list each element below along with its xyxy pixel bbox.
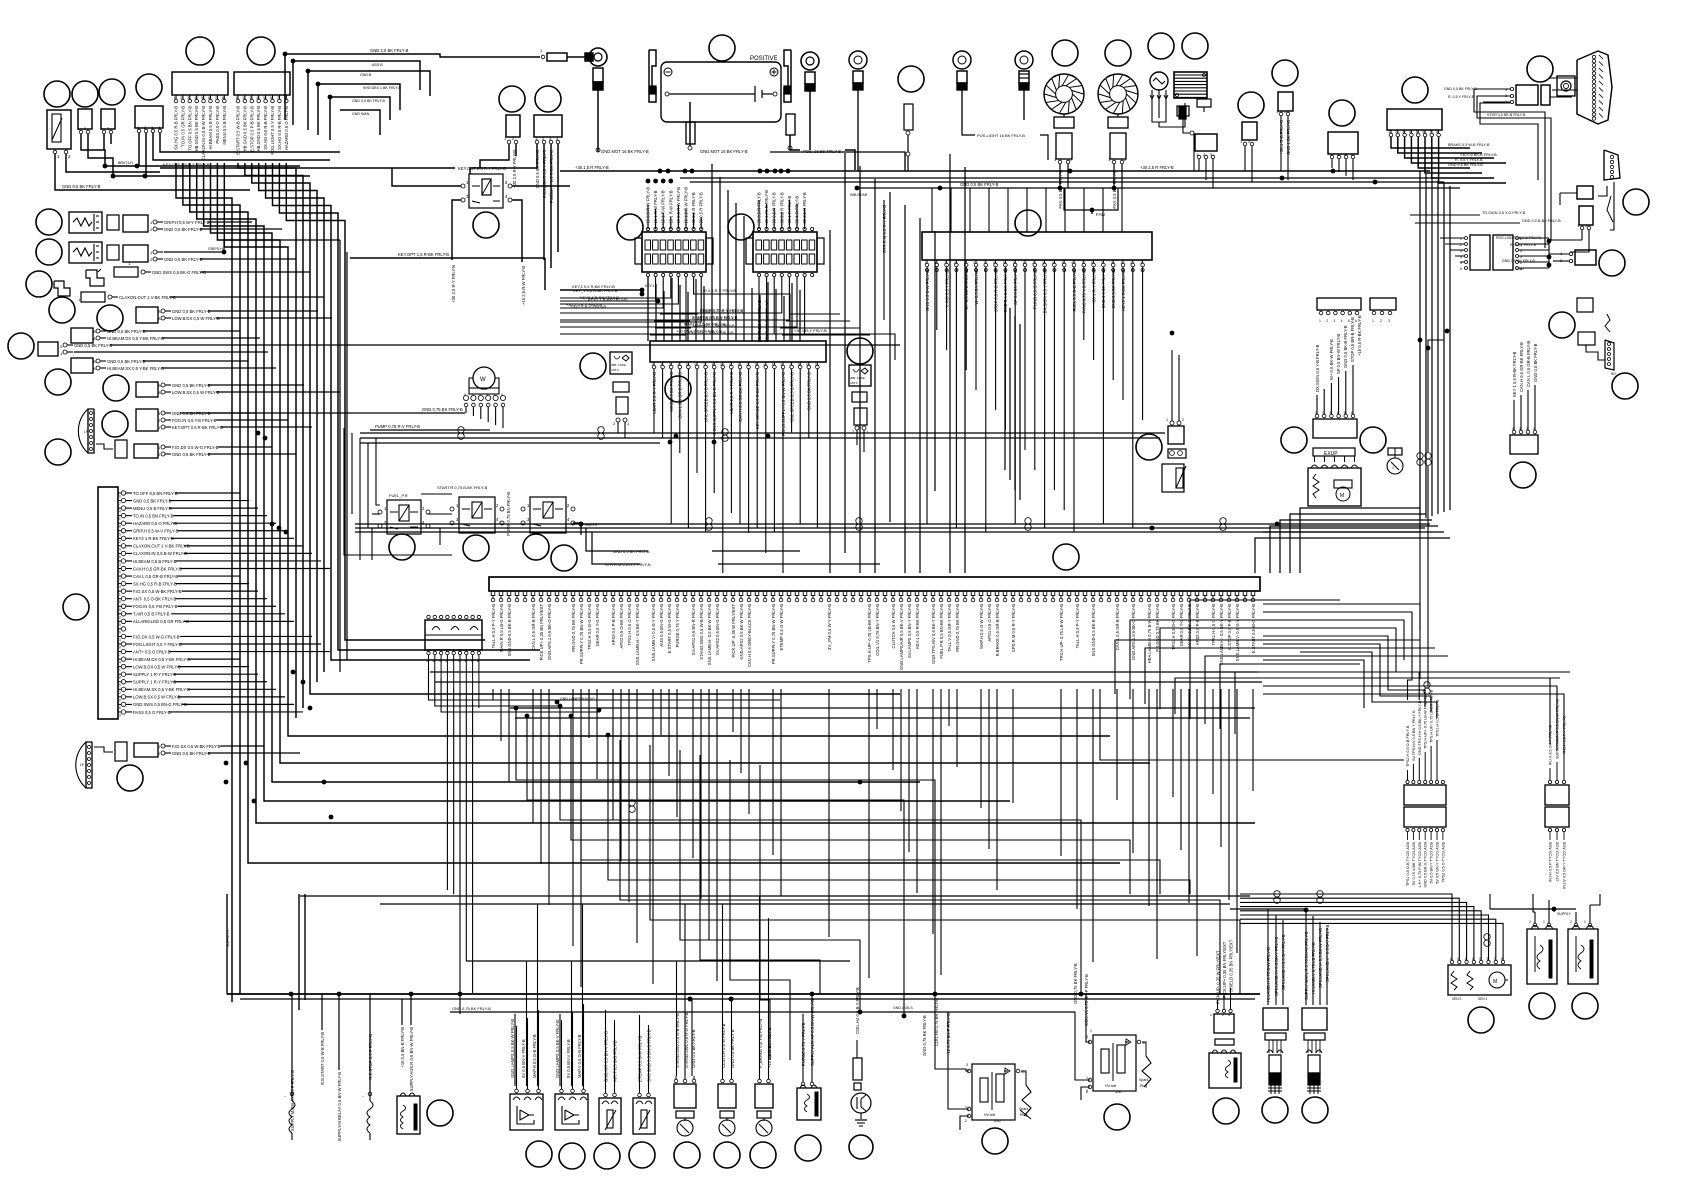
svg-text:7: 7 [1081,261,1083,265]
svg-text:E.STOP 0.5 P-B FRLY-B: E.STOP 0.5 P-B FRLY-B [249,106,254,152]
node balloon [1104,1104,1130,1130]
svg-text:B: B [158,383,161,388]
svg-text:SEN 1: SEN 1 [1478,997,1487,1001]
svg-text:3: 3 [249,96,251,100]
node balloon [523,534,549,560]
svg-text:SNS GND 0,5 BK-B FRLY-B: SNS GND 0,5 BK-B FRLY-B [507,604,512,657]
svg-text:STOP 0,5 BR-B FRLY-B: STOP 0,5 BR-B FRLY-B [1350,317,1355,362]
svg-text:GND.TPS.H/V 0,5 BK-Y FRLY-B: GND.TPS.H/V 0,5 BK-Y FRLY-B [931,604,936,664]
wire [63,343,67,347]
svg-text:GND 0,5 BK FRLY-B: GND 0,5 BK FRLY-B [613,549,650,554]
svg-text:SX.HG 0,5 R-B FRLY-B: SX.HG 0,5 R-B FRLY-B [133,581,177,586]
svg-text:PICK.UP+ 0,35 BN FRLY/EXT: PICK.UP+ 0,35 BN FRLY/EXT [539,604,544,661]
svg-text:GND 0,75 BK FRLY-B: GND 0,75 BK FRLY-B [422,407,463,412]
svg-text:5: 5 [772,363,774,367]
node balloon [1549,312,1575,338]
svg-text:TPS2.H 0,5 O-B FRLY-B: TPS2.H 0,5 O-B FRLY-B [1406,725,1410,767]
svg-text:TPS2.H 0,5 O-G FRLY-B: TPS2.H 0,5 O-G FRLY-B [1171,604,1176,650]
connector 4-pin [534,115,562,137]
node balloon [1527,56,1553,82]
svg-text:8: 8 [119,600,121,604]
wire gnd bus [855,187,1460,189]
fan 1 [1044,74,1084,114]
svg-text:GND.WAN: GND.WAN [352,112,370,116]
relay start [459,497,495,533]
wire trunk left extras [339,240,341,672]
wire bus gnd.coils [450,1011,1075,1013]
svg-text:PASS 0,5 O FRLY-B: PASS 0,5 O FRLY-B [133,710,171,715]
node balloon [898,66,924,92]
wire [1230,908,1306,910]
svg-text:HB.GND 0.5 BK FRLY-B: HB.GND 0.5 BK FRLY-B [242,106,247,152]
wire fuse A out [647,277,649,341]
svg-text:SNS GND 0,5 BK-B FRLY-B: SNS GND 0,5 BK-B FRLY-B [1091,604,1096,657]
svg-text:SUPPLY.AUX.R 0,5 BN-W FRLY-B: SUPPLY.AUX.R 0,5 BN-W FRLY-B [409,1027,414,1092]
svg-text:SV.APS2 0,5 BN-G FRLY-B: SV.APS2 0,5 BN-G FRLY-B [715,604,720,655]
connector 2-pin [1579,206,1593,225]
svg-text:HB.GND 0.5 BK FRLY-B: HB.GND 0.5 BK FRLY-B [194,106,199,152]
svg-text:GND 0,75 BK FRLY-B: GND 0,75 BK FRLY-B [1073,963,1078,1004]
svg-text:3: 3 [119,638,121,642]
svg-text:GND 0,5 BK FRLY B: GND 0,5 BK FRLY B [730,1029,735,1068]
pickup coil [1209,1053,1241,1088]
node balloon [1623,189,1649,215]
svg-text:1: 1 [925,261,927,265]
svg-text:2: 2 [746,363,748,367]
svg-text:SX.HG 0.5 R-B FRLY-B: SX.HG 0.5 R-B FRLY-B [263,106,268,150]
svg-text:KEY_1 0,5 R-BK FRLY-B: KEY_1 0,5 R-BK FRLY-B [573,288,618,293]
battery plus lead [786,114,795,135]
svg-text:FOG.LIGHT 0,5 Y FRLY-B: FOG.LIGHT 0,5 Y FRLY-B [133,642,182,647]
svg-text:2: 2 [1326,319,1328,323]
svg-text:+15 0,5 BN-B FRLY-B: +15 0,5 BN-B FRLY-B [400,1027,405,1068]
svg-text:TPS.H.UP- 0,75 LB-BK FRLY-B: TPS.H.UP- 0,75 LB-BK FRLY-B [1430,689,1434,743]
svg-text:6: 6 [781,363,783,367]
svg-text:9: 9 [119,547,121,551]
bulb connectors [115,742,127,761]
wire bus 896 [300,895,1250,897]
svg-text:5: 5 [1348,319,1350,323]
svg-text:4: 4 [954,261,956,265]
connector dashboard tall [98,487,118,719]
ignition coil H [972,1064,1015,1120]
svg-text:CAN H 0,5 GR-BK FRLY-B: CAN H 0,5 GR-BK FRLY-B [1519,342,1524,392]
svg-text:2: 2 [934,261,936,265]
svg-text:LOW.B.DX 0,5 W FRLY-B: LOW.B.DX 0,5 W FRLY-B [172,316,220,321]
svg-text:+12 0,75 BN-P FRLY-B: +12 0,75 BN-P FRLY-B [946,1013,951,1056]
throttle position sensor connector [1404,785,1446,805]
node balloon [45,369,71,395]
wire [1428,340,1444,348]
svg-text:3: 3 [1228,1013,1230,1017]
fuel level sensor [47,110,71,149]
svg-text:FAN 0,5 B-Y FRLY-B: FAN 0,5 B-Y FRLY-B [1058,170,1063,209]
svg-text:ANT.C: ANT.C [850,381,858,385]
svg-text:ANT.C: ANT.C [611,368,619,372]
svg-text:GND.APS.1 0,5 BK-O FRLY-B: GND.APS.1 0,5 BK-O FRLY-B [547,604,552,660]
svg-text:TO.IN 0.5 GR FRLY-B: TO.IN 0.5 GR FRLY-B [180,106,185,147]
svg-text:2: 2 [119,540,121,544]
svg-text:CAN L 0,5 GR-B FRLY-B: CAN L 0,5 GR-B FRLY-B [1526,341,1531,387]
svg-text:GND.MOT 16 BK FRLY-B: GND.MOT 16 BK FRLY-B [601,149,649,154]
svg-text:SNS.LAMB.H- 0,5 BK-W FRLY-B: SNS.LAMB.H- 0,5 BK-W FRLY-B [707,604,712,665]
svg-text:3V._PM 0,5 W-Y FRLY-B: 3V._PM 0,5 W-Y FRLY-B [827,604,832,650]
switch [86,270,104,286]
fan 2 [1098,74,1138,114]
svg-text:F_BRAKE 0,5 Y-B FRLY-B: F_BRAKE 0,5 Y-B FRLY-B [758,1019,763,1068]
svg-text:Plug: Plug [1140,1084,1147,1088]
svg-text:4: 4 [119,510,121,514]
svg-text:IMB.REAR: IMB.REAR [850,193,868,197]
svg-text:GND 0,5 BK FRLY-B: GND 0,5 BK FRLY-B [1444,87,1478,91]
svg-text:FUEL.P.R 0,5 BN-BK FRLY-B: FUEL.P.R 0,5 BN-BK FRLY-B [939,604,944,659]
wire right bus entry [1331,169,1336,174]
connector 2-pin [1242,122,1257,140]
relay box connector [425,620,482,650]
injector H [1263,1008,1288,1030]
svg-text:KEY.OUT 0,5 R-Y FRLY-B: KEY.OUT 0,5 R-Y FRLY-B [163,162,210,167]
fuse box rear [753,232,817,272]
svg-text:7: 7 [703,363,705,367]
svg-text:A: A [158,316,161,321]
node balloon [982,1128,1008,1154]
node balloon [1529,993,1555,1019]
svg-text:GND.APS2 0,5 BK-W FRLY-B: GND.APS2 0,5 BK-W FRLY-B [739,604,744,660]
svg-text:POS.LIGHT 16 BK FRLY-B: POS.LIGHT 16 BK FRLY-B [977,133,1025,138]
node balloon [1105,40,1131,66]
svg-text:COIL.V1 0,75 BN-P FRLY-B: COIL.V1 0,75 BN-P FRLY-B [1084,974,1089,1026]
svg-text:IMB··CODE: IMB··CODE [611,363,626,367]
wire junctions [270,522,275,527]
svg-text:TO.IN 0,5 BN FRLY-B: TO.IN 0,5 BN FRLY-B [133,513,174,518]
node balloon [1599,250,1625,276]
svg-text:2: 2 [1380,319,1382,323]
svg-text:2: 2 [1086,1089,1088,1093]
svg-text:GND 0,5 BK FRLY-B: GND 0,5 BK FRLY-B [172,383,211,388]
svg-text:6: 6 [119,630,121,634]
node balloon [49,297,75,323]
svg-text:0: 0 [815,363,817,367]
wire mesh right [1100,689,1404,760]
svg-text:PUMP 0,75 BN FRLY-B: PUMP 0,75 BN FRLY-B [506,492,511,536]
svg-text:GND 0,5 BK FRLY-B: GND 0,5 BK FRLY-B [107,359,146,364]
node balloon [629,1142,655,1168]
ring terminal [849,51,867,69]
clutch switch [718,1084,736,1108]
svg-text:5: 5 [119,532,121,536]
heated grip left [69,242,102,263]
alternator [1150,72,1168,90]
wire [470,144,537,174]
svg-text:GND: GND [994,1119,1002,1123]
svg-text:E.START 0,5 W-G FRLY-B: E.START 0,5 W-G FRLY-B [667,604,672,653]
svg-text:6: 6 [119,706,121,710]
wire [480,144,509,168]
battery [661,62,781,122]
svg-text:KEY.OUT 0.5 R Y FRLY-B: KEY.OUT 0.5 R Y FRLY-B [458,166,506,171]
ring terminal battery+ [801,52,819,70]
svg-text:GND 0,5 BK FRLY-B: GND 0,5 BK FRLY-B [1533,343,1538,382]
svg-text:0: 0 [119,646,121,650]
svg-text:7: 7 [215,96,217,100]
svg-text:+30 2,5 R-Y FRLY-B: +30 2,5 R-Y FRLY-B [451,265,456,303]
svg-text:TPS.H.UP- 0,75 LB-W FRLY-B: TPS.H.UP- 0,75 LB-W FRLY-B [1059,604,1064,661]
node balloon [1272,60,1298,86]
connector 4-pin [1328,132,1358,154]
node balloon [580,353,606,379]
svg-text:MENU 0.5 B FRLY-B: MENU 0.5 B FRLY-B [222,106,227,145]
svg-text:1: 1 [119,668,121,672]
svg-text:ALLARM.LED 0,5 GR FRLY-B: ALLARM.LED 0,5 GR FRLY-B [133,619,189,624]
svg-text:GND.SWS 0,5 BK-G FRLY-B: GND.SWS 0,5 BK-G FRLY-B [152,270,206,275]
lamp connector [136,307,158,323]
wire bus triple [355,523,1430,525]
purge valve [797,1088,821,1120]
svg-text:TPS.H.UP- 0,75 LB-BK FRLY-B: TPS.H.UP- 0,75 LB-BK FRLY-B [867,604,872,663]
connector [123,245,148,262]
wire stepper staircase [1240,894,1452,960]
wire [293,61,420,90]
svg-text:8: 8 [1091,261,1093,265]
svg-text:SHD.DBS 1 BK FRLY-B: SHD.DBS 1 BK FRLY-B [363,86,402,90]
node balloon [849,1135,873,1159]
node balloon [44,81,70,107]
wire [452,200,461,260]
relay lights 2 [1493,235,1513,270]
stepper motor [1448,965,1511,995]
svg-text:R. 0,5 Y FRLY-B: R. 0,5 Y FRLY-B [1448,95,1475,99]
svg-text:R. 0,5 Y FRLY-B: R. 0,5 Y FRLY-B [1455,158,1483,162]
svg-text:5: 5 [1416,130,1418,134]
svg-text:GND 0,5 BK-G TYCO.ACB: GND 0,5 BK-G TYCO.ACB [1424,842,1428,888]
svg-text:HB.GND 0.5 BK FRLY-B: HB.GND 0.5 BK FRLY-B [256,106,261,152]
svg-text:8: 8 [1436,130,1438,134]
svg-text:7: 7 [119,578,121,582]
svg-text:3: 3 [119,562,121,566]
svg-text:4: 4 [1052,261,1054,265]
svg-text:TO.SIGN 0,5 Y-G FRLY-B: TO.SIGN 0,5 Y-G FRLY-B [1482,211,1526,215]
svg-text:SEN 2: SEN 2 [1452,997,1461,1001]
svg-text:KEY.1: KEY.1 [645,284,655,288]
svg-text:GRIP.H 0,5 W-Y FRLY-B: GRIP.H 0,5 W-Y FRLY-B [164,220,210,225]
wire [1549,240,1582,268]
svg-text:7: 7 [1429,130,1431,134]
svg-text:B: B [93,329,96,334]
connector left handlebar switch [172,72,228,95]
svg-text:CAV.H 0,5 GR-BK FRLY-B: CAV.H 0,5 GR-BK FRLY-B [133,566,182,571]
svg-text:+30.DSH 2,5 R-Y FRLY-B: +30.DSH 2,5 R-Y FRLY-B [688,330,734,335]
svg-text:3: 3 [1086,1035,1088,1039]
connector 3-pin [1195,134,1217,151]
svg-text:PASS 0.5 O FRLY-B: PASS 0.5 O FRLY-B [215,106,220,144]
node balloon [389,534,415,560]
svg-text:GND 0,5 BK FRLY-B: GND 0,5 BK FRLY-B [164,257,203,262]
svg-text:APS2 0,5 O-BK FRLY-B: APS2 0,5 O-BK FRLY-B [619,604,624,649]
svg-text:MAIN.B 2,5 BK FRLY-B: MAIN.B 2,5 BK FRLY-B [693,323,735,328]
svg-text:SV-APS1 0,5 BN-R FRLY-B: SV-APS1 0,5 BN-R FRLY-B [691,604,696,655]
wire pump label [370,429,490,431]
svg-text:9: 9 [806,363,808,367]
node balloon [63,594,89,620]
svg-text:2: 2 [965,1119,967,1123]
node balloon [102,411,128,437]
svg-text:F.ID.SX 0,5 W-BK FRLY-B: F.ID.SX 0,5 W-BK FRLY-B [133,589,182,594]
svg-text:FUEL_P.R: FUEL_P.R [389,493,408,498]
svg-text:LOW.B.DX 0,5 W FRLY-B: LOW.B.DX 0,5 W FRLY-B [133,664,181,669]
svg-text:3: 3 [669,363,671,367]
svg-text:5: 5 [263,96,265,100]
svg-text:PUMP 0,75 R-Y FRLY-B: PUMP 0,75 R-Y FRLY-B [700,309,743,314]
heated grip right [69,212,102,233]
svg-text:GND 0,5 BK FRLY-B: GND 0,5 BK FRLY-B [74,343,113,348]
node balloon [1572,993,1598,1019]
svg-text:KEY.OPT 0,5 R-BK FRLY-B: KEY.OPT 0,5 R-BK FRLY-B [172,425,223,430]
node balloon [26,271,52,297]
node balloon [1262,1097,1288,1123]
svg-text:3: 3 [1388,319,1390,323]
svg-text:1: 1 [236,96,238,100]
connector 2-pin [78,109,92,129]
node balloon [473,212,499,238]
svg-text:SHIELD 0,35 BN FRLY/EXT: SHIELD 0,35 BN FRLY/EXT [1229,939,1234,992]
svg-text:PR.GND 0,75 BK FRLY-B: PR.GND 0,75 BK FRLY-B [955,604,960,652]
wire bus to instrument [931,188,933,232]
svg-text:KEY.1 0,5 R-BK FRLY-B: KEY.1 0,5 R-BK FRLY-B [915,604,920,649]
svg-text:COIL.H4 0,5 B-Y FRLY-B: COIL.H4 0,5 B-Y FRLY-B [855,987,860,1034]
svg-text:EXUP: EXUP [1324,451,1338,457]
svg-text:HV bolt: HV bolt [984,1113,995,1117]
svg-text:E.START 0.5 W-B FRLY-B: E.START 0.5 W-B FRLY-B [236,106,241,155]
svg-text:2: 2 [242,96,244,100]
svg-text:GND.LAMPS/AIR 0,5 BK-V FRLY-B: GND.LAMPS/AIR 0,5 BK-V FRLY-B [899,604,904,670]
connector horn [38,342,58,356]
node balloon [1213,1098,1239,1124]
svg-text:4: 4 [494,393,496,397]
svg-text:6: 6 [270,96,272,100]
svg-text:PICK.UP+ 0,35 BN FRLY/EXT: PICK.UP+ 0,35 BN FRLY/EXT [1222,941,1227,998]
svg-text:3: 3 [187,96,189,100]
svg-text:6: 6 [208,96,210,100]
fuse box front [642,232,706,272]
svg-text:3: 3 [1333,319,1335,323]
wire [429,668,781,700]
coil symbol [289,1101,295,1133]
svg-text:FOG.IN 0,5 Y-B FRLY-B: FOG.IN 0,5 Y-B FRLY-B [133,604,178,609]
svg-text:KEY2 1 R-BK FRLY-B: KEY2 1 R-BK FRLY-B [588,297,627,302]
svg-text:HI.BEAM.DX 0,5 Y-BK FRLY-B: HI.BEAM.DX 0,5 Y-BK FRLY-B [107,336,164,341]
air temp sensor [599,1098,621,1134]
node balloon [1329,100,1355,126]
wire key.opt [350,257,545,259]
connector right handlebar switch [234,72,290,95]
svg-text:5V 0,75 V-BK TYCO.ACB: 5V 0,75 V-BK TYCO.ACB [1412,842,1416,886]
wire [573,523,581,535]
svg-text:1: 1 [1584,920,1586,924]
svg-text:GND: GND [1115,1090,1123,1094]
regulator [1174,72,1207,98]
svg-text:9: 9 [720,363,722,367]
svg-text:GND 0,75 BK FRLY-B: GND 0,75 BK FRLY-B [922,1015,927,1056]
svg-text:INJ-V 0,5 GR-Y TYCO.ACB: INJ-V 0,5 GR-Y TYCO.ACB [1563,842,1567,889]
engine control unit connector [489,577,1260,591]
svg-text:FOG.LIGHT 0.5 Y FRLY-B: FOG.LIGHT 0.5 Y FRLY-B [270,106,275,155]
svg-text:9: 9 [1003,261,1005,265]
svg-text:1: 1 [1121,261,1123,265]
svg-text:LP: LP [80,763,84,767]
connector [123,215,148,232]
svg-text:TPS2 0,5 O TYCO.ACB: TPS2 0,5 O TYCO.ACB [1441,842,1445,883]
node balloon [463,535,489,561]
wire gnd.mot [597,148,599,152]
svg-text:GND 0,5 BK FRLY-B: GND 0,5 BK FRLY-B [1448,163,1483,167]
svg-text:1: 1 [1086,1076,1088,1080]
connector 4-pin [1510,435,1538,454]
svg-text:PURGE 0,75 Y FRLY-B: PURGE 0,75 Y FRLY-B [675,604,680,648]
svg-text:A: A [158,390,161,395]
svg-text:HI.BEAM.SX 0,5 Y-BK FRLY-B: HI.BEAM.SX 0,5 Y-BK FRLY-B [107,366,164,371]
svg-text:TPS1.H 0,5 O FRLY-B: TPS1.H 0,5 O FRLY-B [1436,699,1440,737]
svg-text:+30 1 R-Y FRLY-B: +30 1 R-Y FRLY-B [794,328,827,333]
node balloon [1148,33,1174,59]
svg-text:5V 0,5 BN-V FRLY-B: 5V 0,5 BN-V FRLY-B [566,1039,571,1078]
svg-text:7: 7 [277,96,279,100]
svg-text:2: 2 [1182,418,1184,422]
svg-text:2: 2 [660,363,662,367]
svg-text:1: 1 [965,1105,967,1109]
svg-text:1: 1 [1023,261,1025,265]
wire mesh [516,708,935,994]
svg-text:+30 2,5 R-Y FRLY-B: +30 2,5 R-Y FRLY-B [512,150,517,188]
svg-text:APS2 0,5 P-B FRLY-B: APS2 0,5 P-B FRLY-B [1195,604,1200,645]
svg-text:PR.GND 0,75 BK FRLY-B: PR.GND 0,75 BK FRLY-B [1155,604,1160,652]
wire gnd label [180,412,465,414]
svg-text:IMB··CODE: IMB··CODE [850,376,865,380]
svg-text:M: M [1493,979,1497,985]
svg-text:5V 0,5 BN-V FRLY-B: 5V 0,5 BN-V FRLY-B [521,1039,526,1078]
svg-text:0: 0 [119,570,121,574]
svg-text:4: 4 [1341,319,1343,323]
svg-text:2: 2 [1222,1013,1224,1017]
svg-text:GND.TPS.H/V 0,5 BK-Y FRLY-B: GND.TPS.H/V 0,5 BK-Y FRLY-B [1418,700,1422,755]
svg-text:MAP.V 0,5 G-B FRLY-B: MAP.V 0,5 G-B FRLY-B [577,1034,582,1078]
svg-text:BRKT.LH: BRKT.LH [118,161,133,165]
node balloon [847,338,873,364]
switch claxon [54,281,70,296]
svg-text:0: 0 [729,363,731,367]
svg-text:0: 0 [464,393,466,397]
node balloon [1053,544,1079,570]
svg-text:0: 0 [1111,261,1113,265]
svg-text:7: 7 [119,502,121,506]
svg-text:Spark: Spark [1139,1078,1149,1082]
node balloon [1468,1007,1494,1033]
immobilizer rear [849,365,871,386]
battery bracket left [649,50,656,102]
svg-text:LOW.B.SX 0,5 W FRLY-B: LOW.B.SX 0,5 W FRLY-B [133,695,181,700]
wire gnd.sws [141,270,145,274]
node balloon [499,86,525,112]
wire +30 bus [560,170,1430,172]
svg-text:Spark: Spark [1019,1107,1029,1111]
spark plug H [1021,1071,1026,1085]
svg-text:1: 1 [1210,1013,1212,1017]
svg-text:+15 0,5 R-BK FRLY-B: +15 0,5 R-BK FRLY-B [767,1027,772,1068]
ring terminal [567,56,585,58]
svg-text:8: 8 [798,363,800,367]
connector 2-pin [1278,92,1293,111]
svg-text:4: 4 [119,585,121,589]
wire claxon.out [108,295,112,299]
